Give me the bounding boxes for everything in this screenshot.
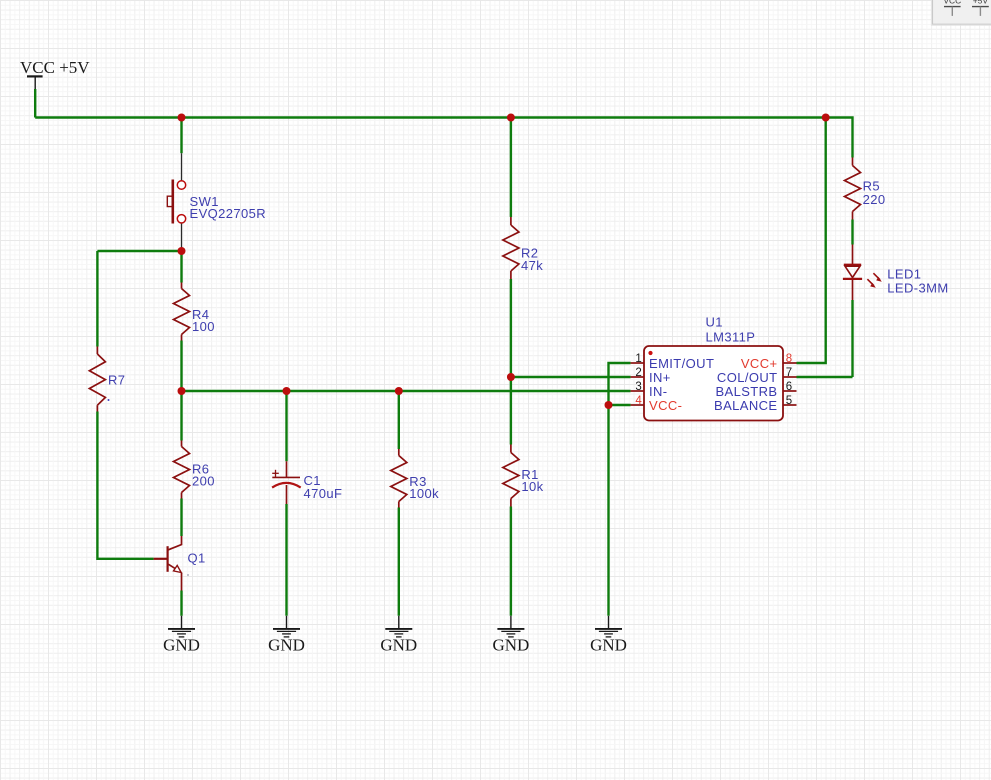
resistor R5: [845, 158, 886, 220]
svg-text:VCC+: VCC+: [741, 356, 778, 371]
power flag VCC +5V: [20, 58, 90, 89]
wire R5 to LED: [851, 220, 853, 245]
transistor Q1: [154, 536, 206, 591]
wire R6 bottom to Q1 collector: [180, 499, 182, 537]
ground GND5: [590, 616, 627, 655]
pin 3 IN-: [631, 390, 644, 392]
wire C1 top: [285, 391, 287, 461]
svg-text:VCC: VCC: [943, 0, 961, 5]
svg-text:8: 8: [786, 353, 792, 365]
pin 6 BALSTRB: [783, 390, 797, 392]
junction VCC- node: [605, 401, 613, 409]
wire R7 top: [96, 251, 98, 347]
pin 5 BALANCE: [783, 404, 797, 406]
wire R3 top: [398, 391, 400, 449]
svg-text:470uF: 470uF: [304, 486, 343, 501]
svg-text:47k: 47k: [521, 258, 543, 273]
svg-text:GND: GND: [492, 636, 529, 655]
power symbol palette panel: [931, 0, 991, 25]
svg-text:R7: R7: [108, 373, 125, 388]
svg-text:VCC +5V: VCC +5V: [20, 58, 90, 77]
svg-text:1: 1: [635, 353, 641, 365]
resistor R1: [503, 445, 544, 507]
wire R4 top: [180, 251, 182, 283]
wire pin7 to LED column: [797, 376, 853, 378]
junction IN+ node: [507, 373, 515, 381]
svg-text:COL/OUT: COL/OUT: [717, 370, 778, 385]
svg-text:Q1: Q1: [188, 551, 206, 566]
switch SW1: [167, 153, 266, 249]
junction R4 bottom node: [178, 387, 186, 395]
ground GND2: [268, 616, 305, 655]
wire SW1 bottom to node: [97, 250, 181, 252]
resistor R2: [503, 217, 543, 279]
svg-text:220: 220: [863, 192, 886, 207]
svg-text:IN-: IN-: [649, 384, 668, 399]
pin 7 COL/OUT: [783, 376, 797, 378]
svg-text:EVQ22705R: EVQ22705R: [190, 206, 267, 221]
wire VCC- node to ground: [607, 405, 609, 616]
pin 2 IN+: [631, 376, 644, 378]
wire R7 bottom to Q1 base: [97, 412, 153, 559]
svg-text:200: 200: [192, 474, 215, 489]
pin 8 VCC+: [783, 362, 797, 364]
wire LED cathode down: [851, 300, 853, 377]
svg-text:5: 5: [786, 395, 792, 407]
wire R3 bottom to ground: [398, 508, 400, 616]
wire R4 bottom: [180, 341, 182, 392]
wire pin8 riser to top rail: [797, 118, 826, 364]
resistor R3: [391, 449, 439, 508]
junction on top rail at SW1: [178, 114, 186, 122]
ground GND4: [492, 616, 529, 655]
svg-text:IN+: IN+: [649, 370, 671, 385]
svg-text:GND: GND: [163, 636, 200, 655]
svg-text:GND: GND: [380, 636, 417, 655]
wire R1 bottom to ground: [510, 507, 512, 616]
wire R2 top branch: [510, 118, 512, 218]
svg-text:2: 2: [635, 367, 641, 379]
svg-text:EMIT/OUT: EMIT/OUT: [649, 356, 714, 371]
resistor R7: [89, 347, 125, 412]
wire R6 top: [180, 391, 182, 441]
svg-text:100k: 100k: [409, 486, 439, 501]
svg-text:6: 6: [786, 381, 792, 393]
svg-text:+5V: +5V: [973, 0, 989, 5]
pin 1 EMIT/OUT: [631, 362, 644, 364]
svg-text:LED-3MM: LED-3MM: [887, 281, 948, 296]
wire C1 bottom to ground: [285, 504, 287, 616]
wire pin1 to pin4 link: [609, 363, 631, 405]
wire VCC stem: [34, 89, 36, 118]
wire SW1 top branch: [180, 118, 182, 154]
svg-text:GND: GND: [590, 636, 627, 655]
LED LED1: [843, 245, 949, 301]
junction C1 node: [283, 387, 291, 395]
svg-text:LM311P: LM311P: [706, 330, 756, 345]
svg-text:4: 4: [635, 395, 642, 407]
ground GND3: [380, 616, 417, 655]
wire IN+ net horizontal: [511, 376, 631, 378]
junction SW1 bottom node: [178, 247, 186, 255]
wire top power rail: [35, 118, 852, 158]
svg-text:VCC-: VCC-: [649, 398, 682, 413]
resistor R4: [174, 283, 215, 341]
svg-text:7: 7: [786, 367, 792, 379]
svg-text:100: 100: [192, 319, 215, 334]
junction on top rail at pin8 riser: [822, 114, 830, 122]
svg-text:10k: 10k: [521, 479, 543, 494]
svg-text:BALSTRB: BALSTRB: [715, 384, 777, 399]
IC U1 LM311P: [631, 315, 797, 421]
ground GND1: [163, 616, 200, 655]
svg-text:U1: U1: [706, 315, 723, 330]
resistor R6: [174, 441, 215, 499]
capacitor C1: [272, 461, 342, 504]
junction on top rail at R2: [507, 114, 515, 122]
svg-text:LED1: LED1: [887, 266, 921, 281]
wire IN- net horizontal: [182, 390, 631, 392]
svg-text:BALANCE: BALANCE: [714, 398, 778, 413]
wire R2 bottom through node to R1: [510, 279, 512, 445]
svg-text:GND: GND: [268, 636, 305, 655]
wire Q1 emitter to ground: [180, 591, 182, 616]
junction R3 node: [395, 387, 403, 395]
svg-text:3: 3: [635, 381, 641, 393]
pin 4 VCC-: [631, 404, 644, 406]
